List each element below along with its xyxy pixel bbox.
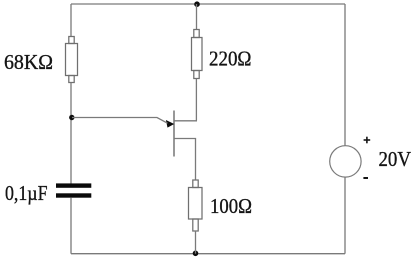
wire left column upper <box>70 4 72 37</box>
label - <box>363 177 368 179</box>
wire left column middle <box>70 83 72 185</box>
wire right column upper <box>344 4 346 146</box>
wire emitter to bottom rail <box>195 231 197 254</box>
resistor R1 68KΩ <box>66 37 78 83</box>
node bottom junction <box>193 251 199 257</box>
svg-text:0,1µF: 0,1µF <box>5 181 48 205</box>
wire left column lower <box>70 198 72 254</box>
transistor Q1 <box>166 111 197 157</box>
resistor R3 100Ω <box>189 180 203 231</box>
node base junction <box>69 115 74 120</box>
label + <box>364 137 371 144</box>
resistor R2 220Ω <box>192 30 203 79</box>
wire base <box>72 118 168 124</box>
source V1 20V <box>330 146 361 177</box>
wire middle top column <box>196 4 198 30</box>
node top junction <box>194 1 200 7</box>
capacitor C1 top plate <box>56 183 91 187</box>
wire top rail <box>71 3 345 5</box>
svg-text:220Ω: 220Ω <box>209 47 252 71</box>
wire bottom rail <box>71 253 345 255</box>
svg-text:100Ω: 100Ω <box>210 194 252 218</box>
svg-text:68KΩ: 68KΩ <box>4 50 53 74</box>
wire collector vertical <box>195 79 197 121</box>
svg-text:20V: 20V <box>379 147 412 171</box>
wire emitter vertical <box>195 139 197 181</box>
capacitor C1 bottom plate <box>56 193 91 197</box>
wire right column lower <box>344 177 346 254</box>
